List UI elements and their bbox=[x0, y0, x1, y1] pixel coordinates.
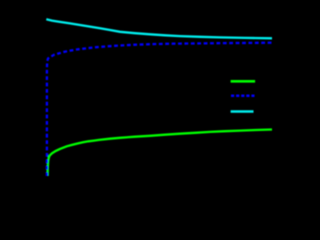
blue dashed curve (middle, rising to asymptote) bbox=[47, 43, 272, 176]
cyan curve (top, decaying) bbox=[46, 19, 272, 38]
legend sample: cyan solid line bbox=[231, 110, 254, 113]
legend sample: green solid line bbox=[231, 80, 256, 83]
legend sample: blue dashed line bbox=[231, 95, 255, 98]
green curve (bottom, rising log-like) bbox=[48, 130, 272, 177]
